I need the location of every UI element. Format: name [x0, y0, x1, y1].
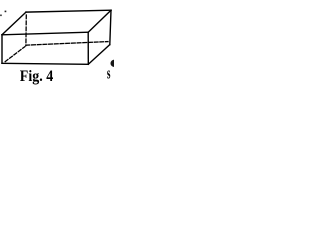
- svg-text:Fig. 4: Fig. 4: [20, 68, 54, 85]
- node: stray dash dot upper-left (b): [0, 15, 2, 17]
- wire: hidden back-left vertical edge BTL-BBL (dashed): [25, 15, 27, 46]
- wire: back right vertical edge BTR-BBR: [110, 10, 111, 44]
- svg-text:s: s: [107, 64, 111, 83]
- text fragment: cut-off "(" glyph at right edge: [110, 60, 114, 67]
- wire: front top edge FTL-FTR: [2, 32, 88, 35]
- wire: front right vertical edge FTR-FBR: [87, 32, 89, 64]
- node: stray dash dot upper-left (a): [5, 11, 7, 13]
- wire: hidden bottom-left slant FBL-BBL (dashed): [5, 47, 25, 62]
- wire: front bottom edge FBR-FBL: [2, 63, 88, 64]
- wire: back top edge BTL-BTR: [26, 10, 111, 12]
- wire: front left vertical edge FBL-FTL: [1, 35, 3, 64]
- wire: left top slant FTL-BTL: [2, 12, 26, 35]
- background: [0, 0, 114, 86]
- wire: bottom right slant BBR-FBR: [88, 45, 110, 65]
- wire: hidden back bottom edge BBL-BBR (dashed): [26, 42, 108, 46]
- wire: right top slant FTR-BTR: [88, 10, 111, 32]
